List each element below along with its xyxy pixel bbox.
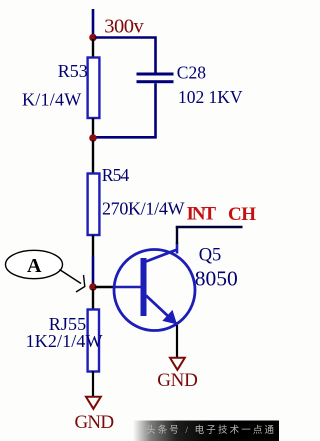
wire collector horizontal to INT CH [176, 226, 243, 228]
wire RJ55 to GND [92, 371, 94, 396]
svg-text:Q5: Q5 [199, 246, 222, 266]
node base junction A [89, 283, 97, 291]
arrow callout leader [60, 270, 82, 284]
node R53/R54 junction [89, 134, 97, 142]
ground symbol right [170, 358, 185, 370]
wire node to R54 [92, 140, 94, 173]
svg-text:CH: CH [228, 204, 256, 225]
capacitor C28 top plate [137, 73, 174, 76]
arrowhead open [76, 275, 85, 292]
wire base black part [95, 286, 114, 288]
svg-text:8050: 8050 [195, 267, 238, 291]
resistor RJ55 [88, 310, 99, 372]
wire base blue part inside transistor [113, 286, 141, 289]
wire node to RJ55 [92, 289, 94, 309]
transistor Q5 emitter diagonal [146, 296, 177, 325]
wire collector vertical blue part [176, 243, 179, 254]
capacitor C28 bottom plate [137, 80, 174, 83]
transistor Q5 circle [114, 250, 195, 331]
svg-text:C28: C28 [177, 63, 206, 83]
wire capacitor bottom return [96, 83, 156, 137]
wire emitter to GND [176, 325, 178, 357]
svg-text:R53: R53 [58, 61, 88, 81]
svg-text:A: A [27, 255, 42, 277]
wire collector vertical black part [176, 226, 178, 244]
transistor Q5 base bar [141, 258, 147, 316]
wire R54 to base node upper black part [92, 235, 94, 256]
node A callout ellipse [6, 250, 63, 278]
svg-text:270K/1/4W: 270K/1/4W [102, 199, 185, 219]
svg-text:102 1KV: 102 1KV [178, 87, 243, 107]
resistor R54 [88, 174, 100, 236]
transistor Q5 emitter arrowhead [162, 310, 177, 325]
svg-text:K/1/4W: K/1/4W [22, 90, 81, 110]
wire junction to R53 [92, 39, 94, 57]
svg-text:R54: R54 [102, 165, 130, 185]
svg-text:GND: GND [75, 412, 115, 433]
wire junction to capacitor top [95, 38, 156, 73]
svg-text:INT: INT [187, 204, 217, 225]
node 300v junction [89, 34, 97, 42]
watermark bar [133, 421, 279, 441]
wire top 300v feed [92, 9, 95, 37]
svg-text:头条号 / 电子技术一点通: 头条号 / 电子技术一点通 [146, 424, 274, 436]
wire R54 to base node lower navy part [92, 256, 95, 285]
resistor R53 [88, 58, 100, 119]
wire R53 to node [92, 118, 94, 136]
svg-text:GND: GND [157, 370, 198, 391]
svg-text:1K2/1/4W: 1K2/1/4W [26, 331, 103, 351]
transistor Q5 collector diagonal [146, 250, 177, 262]
ground symbol left [86, 397, 101, 409]
svg-text:300v: 300v [104, 16, 144, 38]
